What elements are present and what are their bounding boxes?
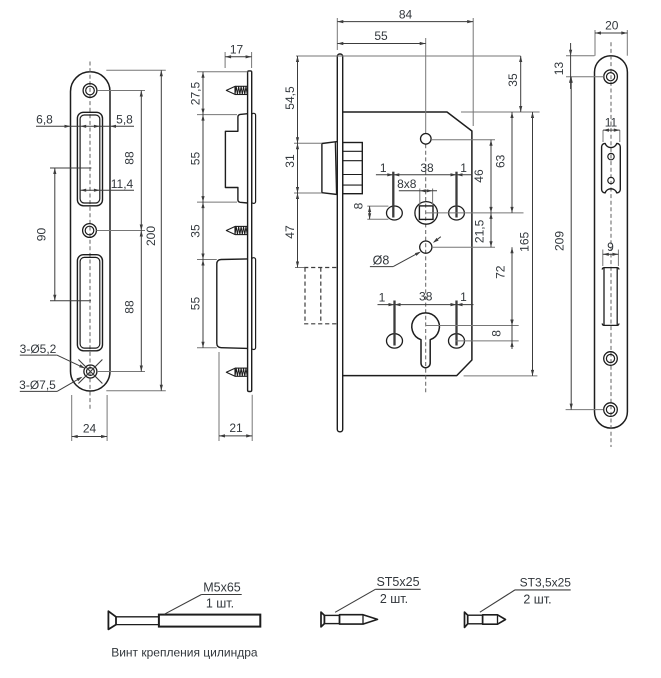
dim 11,4 (80, 189, 134, 191)
dim 20 (594, 30, 596, 56)
faceplate middle screw hole (604, 352, 618, 366)
svg-text:M5x65: M5x65 (203, 581, 241, 595)
strike plate centerline (89, 62, 91, 412)
svg-text:2 шт.: 2 шт. (523, 593, 551, 607)
faceplate latch cutout with scalloped ends (602, 143, 621, 193)
svg-text:72: 72 (494, 265, 508, 279)
upper side holes with 1mm offset lines (387, 206, 403, 220)
strike plate top screw hole (83, 84, 97, 98)
svg-text:1: 1 (460, 290, 467, 304)
lower side holes with 1mm offset lines (387, 334, 403, 348)
svg-text:21: 21 (229, 421, 243, 435)
strike plate deadbolt cutout (lower) outer (77, 255, 102, 351)
svg-text:13: 13 (552, 62, 566, 76)
svg-text:ST5x25: ST5x25 (376, 575, 419, 589)
svg-text:31: 31 (283, 154, 297, 168)
dim 165 (532, 112, 534, 376)
svg-text:8: 8 (352, 202, 366, 209)
faceplate deadbolt cutout (602, 268, 619, 270)
upper dims 1 / 38 / 1 (376, 174, 473, 176)
dim 9 (602, 250, 604, 267)
follower circle with 8x8 square hole (415, 202, 438, 225)
dim 200 (160, 70, 162, 391)
svg-text:63: 63 (494, 154, 508, 168)
dim 35 (520, 56, 522, 112)
strike plate middle screw hole (83, 224, 97, 238)
strike plate front view: plate body (71, 72, 111, 391)
svg-text:3-Ø7,5: 3-Ø7,5 (19, 378, 56, 392)
svg-text:55: 55 (189, 297, 203, 311)
svg-text:6,8: 6,8 (36, 112, 53, 126)
svg-text:1: 1 (379, 291, 386, 305)
top spindle hole (421, 134, 432, 145)
svg-text:1: 1 (460, 161, 467, 175)
svg-text:5,8: 5,8 (116, 112, 133, 126)
latch spring box inside body (343, 143, 363, 194)
svg-text:84: 84 (399, 7, 413, 21)
dim 84 (336, 18, 338, 50)
left dims 54,5 / 31 / 47 (294, 142, 322, 144)
deadbolt thrown position (hidden, dashed) (304, 268, 306, 324)
svg-text:1 шт.: 1 шт. (206, 597, 234, 611)
mounting screw (side view, pointing left) (226, 86, 235, 94)
dim 90 (54, 168, 56, 301)
svg-text:ST3,5x25: ST3,5x25 (520, 575, 572, 589)
dim 88 upper (140, 91, 142, 231)
M5x65 label (201, 594, 241, 596)
euro cylinder profile hole (412, 313, 440, 368)
dim 21 (218, 352, 220, 441)
dim 8 (left, hole height) (367, 205, 388, 207)
side view: lower dust box (217, 259, 248, 349)
dim 55 (faceplate to centerline) (337, 43, 425, 45)
svg-text:90: 90 (35, 228, 49, 242)
svg-text:88: 88 (123, 151, 137, 165)
O8 hole (420, 241, 432, 253)
strike plate latch cutout (upper) inner (80, 115, 100, 203)
dim 6,8 and 5,8 line (36, 125, 134, 127)
ST5x25 label (375, 588, 420, 590)
latch cutout small holes (608, 153, 614, 159)
long faceplate centerline (610, 42, 612, 447)
svg-text:38: 38 (419, 290, 433, 304)
dim 63 (511, 112, 513, 213)
svg-text:55: 55 (189, 152, 203, 166)
dim 8 (right) (511, 317, 513, 349)
svg-text:165: 165 (518, 231, 532, 251)
gray extension lines on right side of body (461, 111, 540, 113)
body vertical centerline (425, 38, 427, 133)
svg-text:11: 11 (605, 116, 618, 130)
svg-text:27,5: 27,5 (189, 81, 203, 105)
dim 88 lower (140, 231, 142, 372)
strike plate bottom screw hole with position cross (84, 365, 97, 378)
O8 leader with arrows (393, 252, 419, 266)
svg-text:209: 209 (553, 231, 567, 251)
faceplate top screw hole (604, 70, 618, 84)
hole center extension lines (97, 90, 145, 92)
svg-text:46: 46 (472, 169, 486, 183)
dim 21,5 (490, 213, 492, 247)
svg-text:200: 200 (144, 226, 158, 246)
faceplate bottom screw hole (604, 403, 618, 417)
dim 46 (490, 140, 492, 213)
side view: strike box lip behind plate (upper) (252, 113, 256, 203)
svg-text:55: 55 (374, 29, 388, 43)
svg-text:38: 38 (420, 161, 434, 175)
svg-text:8x8: 8x8 (397, 177, 417, 191)
side view chain dims 27,5 / 55 / 35 / 55 (197, 71, 248, 73)
self-tapping screw ST3,5x25 (465, 612, 468, 627)
dim 17 (224, 52, 226, 68)
lower dims 1 / 38 / 1 (378, 304, 474, 306)
svg-text:8: 8 (490, 330, 504, 337)
dim 13 (566, 55, 595, 57)
svg-text:20: 20 (605, 19, 619, 33)
ST3,5x25 label (515, 589, 571, 591)
dim 11 (602, 130, 604, 142)
mounting screw (side view, pointing left) (226, 368, 235, 376)
long faceplate body (595, 56, 628, 428)
svg-text:21,5: 21,5 (473, 219, 487, 243)
svg-text:2 шт.: 2 шт. (380, 592, 408, 606)
svg-text:35: 35 (506, 73, 520, 87)
self-tapping screw ST5x25 (321, 612, 324, 627)
svg-text:Винт крепления цилиндра: Винт крепления цилиндра (111, 646, 258, 660)
strike plate latch cutout (upper) outer (77, 112, 102, 206)
side view: upper dust box (stepped) (225, 114, 247, 203)
svg-text:88: 88 (123, 300, 137, 314)
svg-text:Ø8: Ø8 (373, 253, 390, 267)
dim 24 (71, 395, 73, 441)
svg-text:3-Ø5,2: 3-Ø5,2 (20, 342, 57, 356)
svg-text:47: 47 (283, 225, 297, 239)
svg-text:1: 1 (380, 161, 387, 175)
lock body outline with chamfered corners (343, 112, 472, 376)
side view: strike box lip behind plate (lower) (252, 258, 256, 350)
latch bolt head (left of faceplate) (322, 142, 337, 195)
strike plate deadbolt cutout (lower) inner (80, 257, 100, 348)
plate top/bottom extension lines for dim 200 (106, 69, 166, 71)
dim 209 (566, 409, 604, 411)
svg-text:24: 24 (83, 422, 97, 436)
mounting screw (side view, pointing left) (226, 227, 235, 235)
dim 8x8 for follower square (419, 189, 421, 206)
svg-text:9: 9 (607, 240, 614, 254)
cylinder fixing screw M5x65 (108, 611, 116, 629)
dim 72 (511, 247, 513, 325)
lock body faceplate (337, 54, 342, 432)
svg-text:54,5: 54,5 (283, 86, 297, 110)
svg-text:35: 35 (189, 224, 203, 238)
svg-text:11,4: 11,4 (111, 177, 134, 191)
svg-text:17: 17 (230, 43, 244, 57)
side view: plate in profile (248, 71, 252, 392)
faceplate top extension line (296, 55, 521, 57)
